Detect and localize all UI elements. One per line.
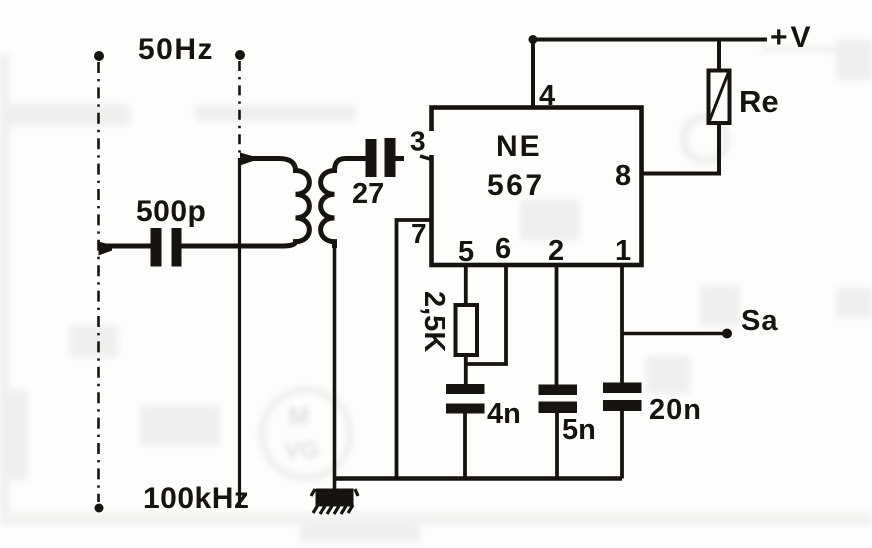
- wire: pin 6 down and over to resistor bottom: [466, 265, 506, 364]
- transformer T1 secondary winding: [321, 159, 352, 249]
- wire: pin 4 to +V rail: [531, 40, 535, 108]
- node: Sa terminal dot: [722, 329, 732, 339]
- node: junction dot on +V rail: [529, 35, 538, 44]
- svg-text:+V: +V: [770, 21, 814, 54]
- wire: 5n to ground bus: [555, 413, 559, 479]
- wire: pin 7 stub to ground bus: [397, 220, 432, 479]
- node: left input terminal dot (bottom): [95, 504, 104, 513]
- svg-text:NE: NE: [496, 130, 542, 163]
- capacitor C2 27: [350, 138, 432, 210]
- IC U1 NE567: [426, 108, 642, 266]
- node: right input terminal dot: [235, 50, 245, 60]
- svg-text:2,5K: 2,5K: [418, 291, 450, 352]
- svg-text:4: 4: [539, 80, 555, 112]
- svg-text:7: 7: [411, 218, 427, 249]
- svg-text:50Hz: 50Hz: [138, 33, 214, 66]
- wire: right input dash-dot upper segment: [238, 61, 241, 158]
- svg-text:1: 1: [615, 235, 631, 267]
- capacitor C4 5n: [539, 385, 596, 447]
- svg-text:5: 5: [458, 236, 474, 268]
- wire: pin 2 down to 5n: [555, 265, 559, 385]
- wire: +V rail: [533, 38, 767, 42]
- svg-text:Re: Re: [739, 84, 779, 119]
- svg-text:2: 2: [548, 235, 564, 267]
- wire: left input dash-dot line: [97, 62, 100, 502]
- wire: secondary bottom down to ground bus: [333, 246, 337, 490]
- transformer T1 primary winding: [240, 159, 309, 247]
- capacitor C5 20n: [603, 383, 702, 427]
- svg-text:6: 6: [495, 233, 511, 265]
- capacitor C1 500p: [99, 195, 241, 267]
- wire: pin 1 down to 20n: [620, 265, 624, 383]
- svg-text:M: M: [288, 401, 310, 431]
- svg-text:VG: VG: [284, 437, 319, 464]
- node: left input terminal dot (top): [94, 51, 104, 61]
- resistor R1 2,5K: [418, 291, 477, 355]
- svg-text:27: 27: [352, 178, 384, 210]
- wire: right input solid segment: [238, 158, 241, 505]
- wire: 4n to ground bus: [463, 413, 467, 479]
- capacitor C3 4n: [446, 384, 521, 430]
- svg-text:4n: 4n: [487, 398, 521, 430]
- wire: 500p wire continues to primary bottom: [240, 244, 284, 249]
- svg-text:100kHz: 100kHz: [143, 482, 249, 515]
- svg-text:Sa: Sa: [741, 305, 778, 337]
- svg-text:3: 3: [410, 126, 426, 157]
- svg-text:567: 567: [487, 169, 545, 202]
- svg-text:5n: 5n: [562, 414, 596, 446]
- wire: Sa output branch: [622, 332, 726, 336]
- svg-text:20n: 20n: [649, 394, 702, 426]
- svg-text:500p: 500p: [136, 195, 206, 228]
- junction wedge where transformer top wire meets right line: [240, 153, 253, 166]
- wire: ground bus: [335, 476, 623, 480]
- relay Re: [709, 71, 779, 124]
- junction wedge where 500p wire meets left line: [99, 242, 113, 256]
- wire: resistor bottom down to 4n: [464, 355, 468, 385]
- svg-text:8: 8: [615, 160, 631, 192]
- wire: +V rail to relay: [717, 40, 721, 72]
- wire: pin 5 down to resistor: [464, 265, 468, 306]
- wire: relay to pin 8: [642, 123, 720, 174]
- ground symbol: [311, 489, 358, 514]
- wire: 20n to ground bus: [620, 411, 624, 479]
